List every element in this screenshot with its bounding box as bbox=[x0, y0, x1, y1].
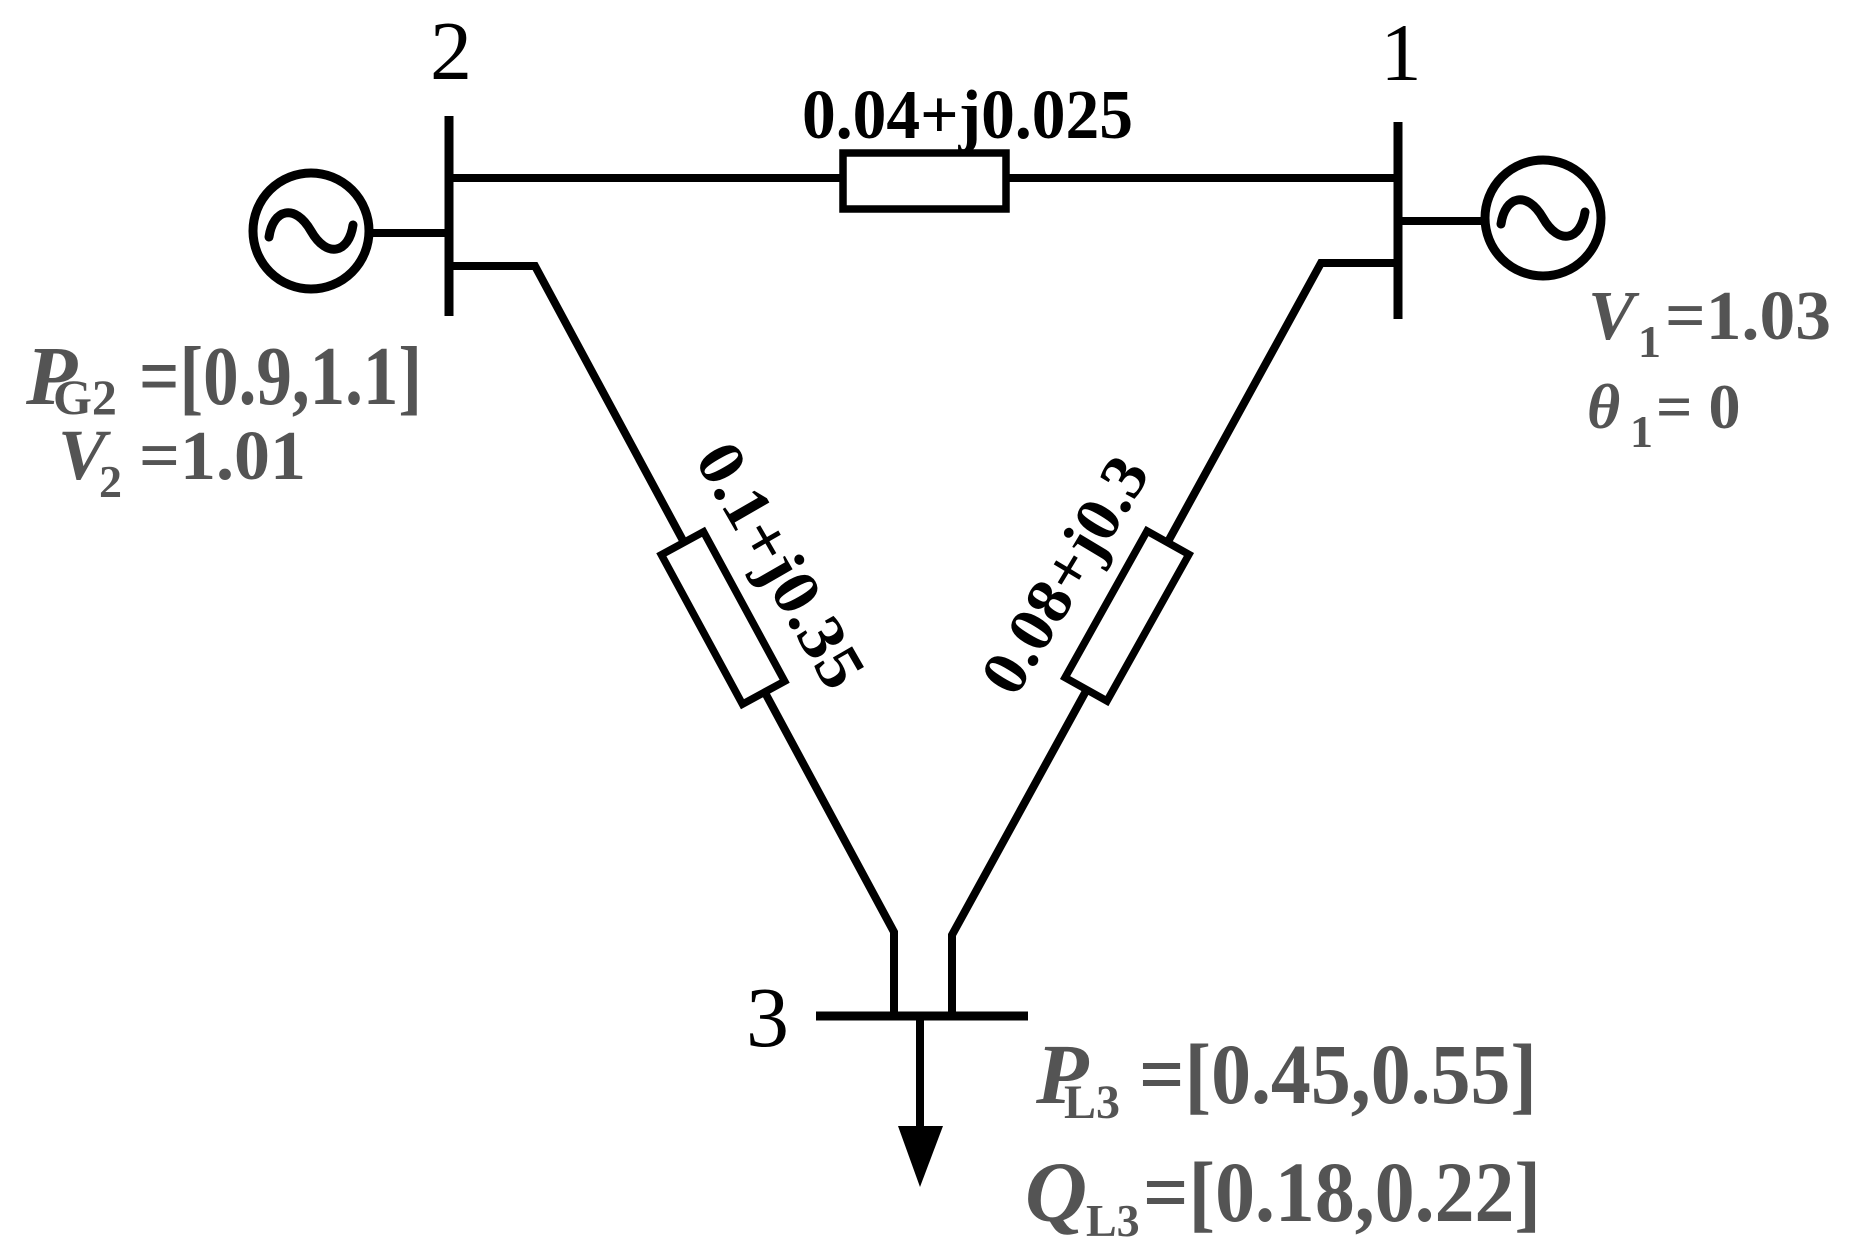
svg-text:=[0.18,0.22]: =[0.18,0.22] bbox=[1143, 1144, 1541, 1240]
svg-text:2: 2 bbox=[430, 5, 472, 98]
svg-text:L3: L3 bbox=[1064, 1076, 1120, 1129]
svg-text:=[0.45,0.55]: =[0.45,0.55] bbox=[1139, 1026, 1537, 1122]
svg-text:1: 1 bbox=[1381, 7, 1422, 98]
svg-text:θ: θ bbox=[1587, 371, 1620, 442]
svg-text:=1.03: =1.03 bbox=[1665, 278, 1831, 355]
svg-text:V: V bbox=[1588, 278, 1640, 355]
svg-text:2: 2 bbox=[99, 456, 122, 507]
svg-text:1: 1 bbox=[1630, 406, 1653, 457]
svg-text:L3: L3 bbox=[1086, 1195, 1140, 1246]
svg-text:3: 3 bbox=[746, 969, 789, 1065]
svg-text:= 0: = 0 bbox=[1656, 371, 1740, 442]
svg-text:=1.01: =1.01 bbox=[139, 418, 306, 495]
svg-text:0.04+j0.025: 0.04+j0.025 bbox=[802, 77, 1133, 154]
svg-text:=[0.9,1.1]: =[0.9,1.1] bbox=[139, 330, 422, 423]
svg-text:1: 1 bbox=[1638, 316, 1661, 367]
svg-text:Q: Q bbox=[1025, 1144, 1087, 1240]
